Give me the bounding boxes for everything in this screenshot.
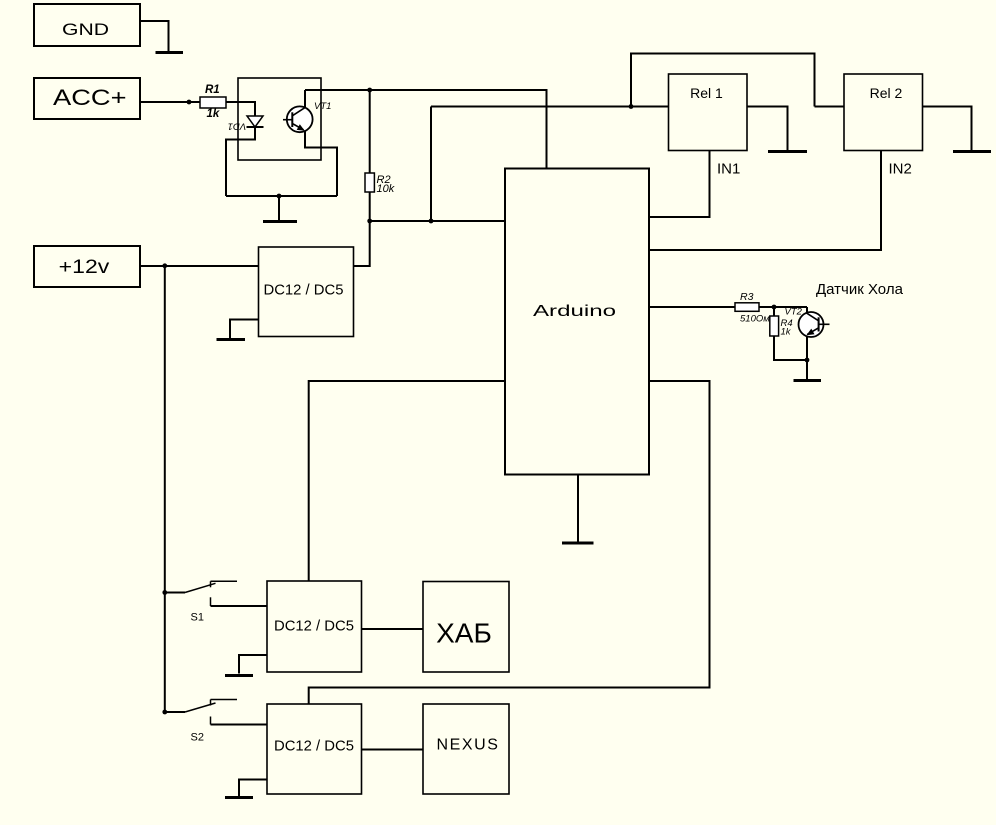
resistor R2 [365,173,374,192]
wire DC3 ground [239,780,267,797]
XAB box [423,582,509,673]
svg-text:R3: R3 [740,291,754,303]
wire Arduino right pin to DC3 net [309,381,710,704]
svg-text:Rel 1: Rel 1 [690,85,723,101]
svg-text:510Ом: 510Ом [740,314,770,325]
wire R4 bottom to emitter junction [774,336,807,360]
terminal box ACC+ [34,78,140,119]
switch S1 [162,581,267,606]
ground (optocoupler) [263,220,297,223]
wire loop to Rel2 [815,106,845,108]
ground (hall sensor) [794,379,822,382]
wire top loop over Rel1 [631,54,815,107]
svg-text:ACC+: ACC+ [53,85,127,110]
ground (DC2) [225,674,253,677]
wire Arduino bottom to ground [577,475,579,542]
svg-text:1k: 1k [207,108,220,120]
svg-text:VD1: VD1 [228,120,246,131]
wire +12v to DC1 [140,265,259,267]
wire DC1 ground [230,320,259,339]
wire R3 to VT2 base node [759,306,807,308]
wire node to Arduino left pin [370,220,505,222]
transistor VT1 [283,106,313,132]
svg-text:ХАБ: ХАБ [436,618,492,649]
svg-text:10k: 10k [377,183,395,195]
ground (DC3) [225,796,253,799]
NEXUS box [423,704,509,794]
node top loop / Rel1 wire [629,104,634,109]
ground (Rel1) [768,150,807,153]
wire IN2 Rel2 to Arduino [649,151,881,251]
svg-text:S2: S2 [191,732,204,744]
svg-text:Датчик Хола: Датчик Хола [816,281,904,298]
wire DC2 ground [239,655,267,674]
svg-text:DC12 / DC5: DC12 / DC5 [264,283,344,299]
DC converter DC12/DC5 (2) box [267,581,362,672]
wire ACC+ to R1 [140,101,200,103]
wire VT2 emitter down [806,337,808,361]
svg-text:IN1: IN1 [717,161,740,178]
terminal box +12v [34,246,140,287]
node on ACC+ wire [187,100,192,105]
resistor R4 [770,316,779,336]
svg-text:IN2: IN2 [889,161,912,178]
resistor R3 [735,303,759,312]
ground (GND box) [156,51,184,54]
wire junction to ground [278,196,280,220]
optocoupler U1 box [238,78,321,160]
svg-text:VT2: VT2 [785,307,803,318]
svg-text:VT1: VT1 [314,101,331,112]
wire 5V rail [305,90,547,169]
node R2 bottom [367,219,372,224]
relay Rel2 box [844,74,923,151]
svg-text:R1: R1 [205,84,220,96]
transistor VT2 [799,312,830,337]
node emitter/R4/ground [805,358,810,363]
svg-text:S1: S1 [191,612,204,624]
wire Rel2 right to ground [923,107,972,151]
resistor R1 [200,97,226,108]
diode VD1 [247,116,264,127]
wire optocoupler bottom rail [226,195,337,197]
wire IN1 Rel1 to Arduino [649,151,710,218]
node R3/R4 junction [772,305,777,310]
svg-text:NEXUS: NEXUS [436,737,499,754]
svg-text:Arduino: Arduino [533,303,616,320]
wire VT1 emitter to bottom rail [305,131,337,196]
DC converter DC12/DC5 (1) box [259,247,354,337]
svg-text:DC12 / DC5: DC12 / DC5 [274,619,354,635]
wire vertical x431 [430,107,432,222]
wire +12v main vertical [164,266,166,712]
switch S2 [162,700,267,725]
ground (DC1) [217,338,246,341]
ground (Arduino) [562,542,594,545]
svg-text:+12v: +12v [59,257,110,278]
DC converter DC12/DC5 (3) box [267,704,362,794]
wire VT1 collector up to 5V rail [304,90,306,108]
svg-text:DC12 / DC5: DC12 / DC5 [274,739,354,755]
wire diode cathode to bottom rail [226,127,255,196]
svg-text:1k: 1k [781,327,792,338]
ground (Rel2) [953,150,991,153]
wire Rel1 right to ground [747,107,788,151]
wire DC3 to NEXUS [362,749,424,751]
node at x431 [429,219,434,224]
wire Arduino to R3 [649,306,735,308]
wire y106.5 to Rel1 [431,106,669,108]
svg-text:Rel 2: Rel 2 [870,85,903,101]
relay Rel1 box [669,74,748,151]
wire R2 net down to DC1 output [354,221,370,266]
wire node to R4 [773,307,775,316]
node optocoupler ground junction [277,194,282,199]
node rail / R2 [367,88,372,93]
svg-text:GND: GND [62,20,109,39]
wire GND box to ground [140,21,169,52]
wire node down to VT2 collector [806,307,808,313]
wire Arduino left pin to DC2 net [309,381,505,581]
wire R2 to node [369,192,371,221]
node +12v junction [162,263,167,268]
wire rail to R2 [369,90,371,173]
wire DC2 to XAB [362,628,424,630]
wire R1 to optocoupler diode [226,102,255,116]
wire to hall ground [806,360,808,379]
terminal box GND [34,4,140,46]
Arduino U2 box [505,169,649,475]
